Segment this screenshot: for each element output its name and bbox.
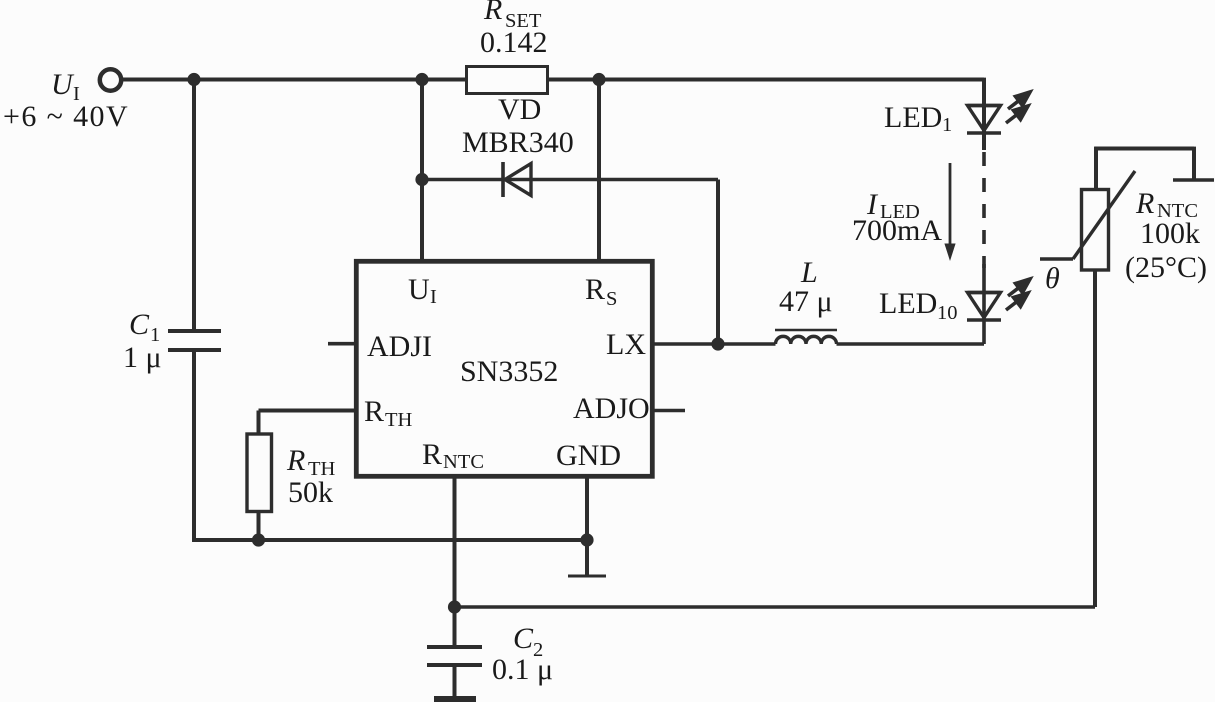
svg-text:I: I — [430, 286, 437, 308]
svg-text:SN3352: SN3352 — [460, 355, 558, 388]
svg-text:1 μ: 1 μ — [123, 341, 162, 374]
svg-text:(25°C): (25°C) — [1125, 251, 1207, 284]
svg-text:S: S — [606, 288, 617, 310]
svg-text:700mA: 700mA — [852, 214, 942, 247]
svg-text:100k: 100k — [1140, 217, 1200, 250]
svg-text:GND: GND — [556, 439, 621, 472]
svg-text:C: C — [129, 308, 150, 341]
svg-text:0.1 μ: 0.1 μ — [492, 653, 553, 686]
svg-text:ADJI: ADJI — [367, 330, 432, 363]
svg-text:U: U — [51, 68, 75, 101]
svg-text:ADJO: ADJO — [573, 392, 650, 425]
svg-text:LED: LED — [879, 287, 937, 320]
svg-text:10: 10 — [937, 302, 958, 324]
svg-text:R: R — [585, 273, 605, 306]
svg-text:U: U — [408, 273, 430, 306]
svg-text:VD: VD — [498, 93, 541, 126]
svg-text:TH: TH — [385, 409, 413, 431]
svg-text:LED: LED — [884, 101, 942, 134]
svg-text:50k: 50k — [288, 476, 333, 509]
svg-text:R: R — [422, 438, 442, 471]
svg-text:θ: θ — [1045, 262, 1060, 295]
svg-text:47 μ: 47 μ — [779, 285, 833, 318]
svg-text:1: 1 — [942, 114, 952, 136]
svg-text:MBR340: MBR340 — [462, 126, 574, 159]
svg-text:R: R — [286, 444, 305, 477]
svg-text:+6 ~ 40V: +6 ~ 40V — [3, 100, 129, 133]
svg-text:R: R — [364, 395, 384, 428]
svg-text:R: R — [483, 0, 502, 26]
svg-text:C: C — [513, 622, 534, 655]
svg-text:LX: LX — [606, 328, 646, 361]
svg-text:R: R — [1135, 187, 1154, 220]
svg-text:0.142: 0.142 — [480, 26, 548, 59]
svg-text:NTC: NTC — [443, 451, 484, 473]
